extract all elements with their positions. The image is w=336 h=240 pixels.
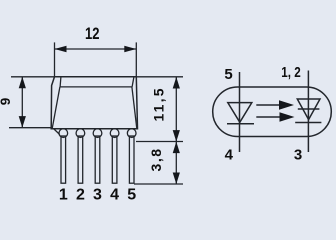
- pin 5 leg: [129, 136, 134, 183]
- svg-text:9: 9: [0, 98, 13, 106]
- pin 1 leg: [61, 136, 66, 183]
- svg-text:1, 2: 1, 2: [281, 64, 301, 81]
- arrow 12 right: [124, 46, 136, 53]
- arrow 12 left: [55, 46, 67, 53]
- dimension 12 extension line left: [54, 42, 56, 76]
- svg-text:3: 3: [93, 187, 102, 201]
- pin 3 leg: [95, 136, 100, 183]
- pin 4 loop: [110, 129, 119, 138]
- body corner to pin 1 fillet: [54, 129, 60, 135]
- svg-text:4: 4: [225, 146, 234, 163]
- pin 1 loop: [59, 129, 68, 138]
- svg-text:1: 1: [59, 187, 68, 201]
- dimension 9 line: [21, 77, 23, 128]
- svg-text:12: 12: [85, 25, 100, 43]
- dimension 11,5 line: [175, 77, 177, 142]
- pin 2 leg: [78, 136, 83, 183]
- wire pins 1,2 to 3 (photodiode branch): [307, 71, 309, 153]
- body inner right side: [132, 87, 137, 129]
- svg-text:5: 5: [127, 187, 136, 201]
- arrow 3,8 top: [173, 142, 180, 154]
- extension line bottom right y184: [134, 183, 183, 185]
- arrow 9 top: [19, 77, 26, 89]
- light arrow 2 shaft: [256, 116, 280, 118]
- package body outline: [51, 77, 137, 129]
- light arrow 1 head: [279, 100, 294, 109]
- svg-text:11,5: 11,5: [150, 88, 166, 121]
- dimension 12 line: [55, 48, 137, 50]
- LED D1 cathode bar: [227, 123, 254, 125]
- svg-text:4: 4: [110, 187, 119, 201]
- dimension arrowheads: [19, 46, 180, 184]
- svg-text:2: 2: [76, 187, 85, 201]
- pin 3 loop: [93, 129, 102, 138]
- optocoupler body outline (stadium): [213, 87, 332, 137]
- arrow 3,8 bottom: [173, 173, 180, 185]
- body inner left side: [52, 87, 60, 129]
- pin 2 loop: [76, 129, 85, 138]
- svg-text:3,8: 3,8: [148, 149, 164, 172]
- extension line mid right y141.8: [136, 141, 183, 143]
- pins with loops: [54, 129, 136, 183]
- arrow 11,5 top: [173, 77, 180, 89]
- dimension 12 extension line right: [135, 42, 137, 76]
- svg-text:5: 5: [224, 66, 232, 83]
- light arrow 2 head: [280, 112, 295, 121]
- dimension 3,8 line: [175, 142, 177, 184]
- photodiode D2 cathode bar: [295, 122, 321, 124]
- svg-text:3: 3: [294, 146, 302, 163]
- pin 4 leg: [112, 136, 117, 183]
- light arrow 1 shaft: [256, 104, 280, 106]
- photodiode D2 triangle: [297, 99, 320, 120]
- body inner left connector: [59, 77, 62, 87]
- arrow 9 bottom: [19, 116, 26, 128]
- dimension 9 bottom extension line: [9, 127, 53, 129]
- wire pin 5 to 4 (LED branch): [239, 72, 241, 152]
- photodiode D2 middle bar: [298, 108, 320, 110]
- pin 5 loop: [127, 129, 136, 138]
- arrow 11,5 bottom: [173, 130, 180, 142]
- body inner top face line: [60, 86, 132, 88]
- body inner right connector: [132, 77, 134, 87]
- top edge / extension line y76.8: [11, 76, 183, 78]
- LED D1 triangle: [228, 103, 252, 123]
